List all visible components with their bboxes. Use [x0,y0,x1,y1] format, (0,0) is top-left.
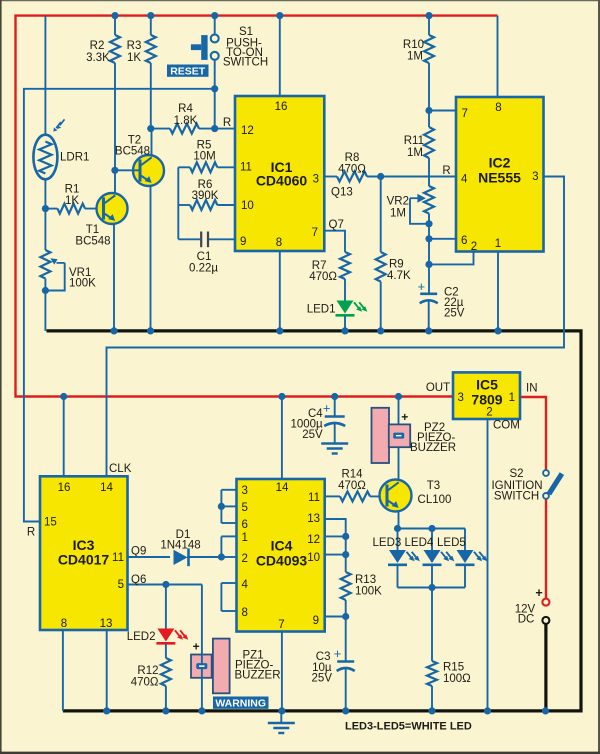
svg-text:+: + [193,640,200,654]
svg-text:12: 12 [307,534,320,546]
node junction S1/reset rail [211,85,218,92]
svg-text:1M: 1M [390,208,406,220]
svg-text:R13: R13 [355,574,376,586]
wire IC4 pins4/8 bracket [220,583,222,611]
svg-text:4.7K: 4.7K [387,270,411,282]
wire IC2 pin8 riser [497,16,499,97]
resistor R11 [428,111,430,128]
svg-text:WARNING: WARNING [215,698,266,710]
svg-text:CL100: CL100 [418,494,452,506]
svg-text:470Ω: 470Ω [309,271,337,283]
svg-text:11: 11 [112,552,124,564]
svg-text:LED3-LED5=WHITE LED: LED3-LED5=WHITE LED [345,721,472,733]
svg-text:R2: R2 [90,40,105,52]
svg-text:10: 10 [307,552,320,564]
wire LDR to R1/VR1 node [44,179,46,208]
wire IC2 pin1 to ground [497,252,499,331]
capacitor C4 [331,393,338,400]
node junction R8/R9/IC2 pin4 [377,173,384,180]
svg-text:13: 13 [100,618,113,630]
wire osc bracket [177,167,179,239]
wire middle ground bus [47,331,582,711]
svg-text:12: 12 [241,125,254,137]
resistor R8 [324,176,337,178]
resistor R7 [324,231,345,252]
node junction Q6/LED2 [162,581,169,588]
svg-text:470Ω: 470Ω [338,480,366,492]
wire +12V top rail (red) [16,16,498,397]
node junction IC3 pin16 riser on red [60,393,67,400]
resistor R12 [165,644,167,658]
svg-text:Q13: Q13 [331,187,353,199]
svg-text:25V: 25V [312,673,333,685]
svg-text:1: 1 [509,392,515,404]
svg-text:R4: R4 [178,103,193,115]
svg-text:LED1: LED1 [307,304,336,316]
svg-text:IC4: IC4 [271,538,293,554]
svg-text:+: + [418,279,426,294]
svg-text:R: R [223,117,231,129]
svg-text:14: 14 [276,482,289,494]
label WARNING [213,697,269,709]
wire IC4 pins1/2 bracket [220,536,222,557]
svg-text:R14: R14 [341,469,363,481]
capacitor C1 [178,238,200,240]
svg-text:8: 8 [61,618,67,630]
switch S2 ignition [543,470,549,476]
svg-text:CD4017: CD4017 [58,552,110,568]
svg-text:13: 13 [307,513,320,525]
wire T3 emitter to LED bus [398,511,400,528]
wire IC4 pins3/5/6 bracket [220,490,222,523]
resistor R4 [147,125,154,132]
svg-text:470Ω: 470Ω [131,677,159,689]
svg-text:R12: R12 [137,665,158,677]
svg-text:3.3K: 3.3K [86,52,110,64]
svg-text:2: 2 [242,553,248,565]
svg-text:R3: R3 [127,40,142,52]
svg-text:BC548: BC548 [75,236,110,248]
resistor R1 [58,204,86,214]
svg-text:7809: 7809 [471,392,502,408]
svg-text:BC548: BC548 [115,145,150,157]
svg-text:LED5: LED5 [437,537,466,549]
svg-text:R1: R1 [65,184,80,196]
switch S1 push-to-on [211,12,218,19]
svg-text:VR2: VR2 [387,196,409,208]
svg-text:100K: 100K [355,586,382,598]
svg-text:IC3: IC3 [73,537,95,553]
wire IC3 pin16 riser [63,397,65,476]
svg-text:15: 15 [44,517,57,529]
label RESET [167,65,209,77]
svg-text:2: 2 [471,241,477,253]
svg-text:7: 7 [278,619,284,631]
wire IC2 pin3 to IC3 CLK [107,177,565,476]
resistor R14 [325,495,340,497]
node junction R10/R11/IC2 pin7 [425,107,432,114]
svg-text:3: 3 [532,171,538,183]
wire IC1 pin16 riser [276,12,283,19]
wire IC4 pin9 stub [325,616,346,618]
svg-text:11: 11 [308,492,320,504]
svg-text:6: 6 [461,235,467,247]
wire LED cathode bus [398,587,466,589]
svg-text:390K: 390K [192,190,219,202]
svg-text:6: 6 [242,519,248,531]
op IC4 CD4093 box [237,479,325,632]
wire IC2 pin2 elbow [429,252,474,265]
wire battery minus drop (black) [544,624,547,711]
svg-text:+: + [401,410,408,424]
ground symbol below C4 [321,442,348,444]
terminal battery minus [542,617,549,624]
svg-text:1K: 1K [65,195,79,207]
wire IC4 pin7 to ground [281,632,283,711]
svg-text:1.8K: 1.8K [174,115,198,127]
wire IC4 pin14 riser [278,393,285,400]
svg-text:5: 5 [242,502,248,514]
capacitor C2 [420,292,437,295]
svg-text:Q7: Q7 [329,219,344,231]
LED LED5 [457,550,474,563]
wire IC2 pin6 stub [425,235,432,242]
LED LED3 [389,550,406,563]
svg-text:Q6: Q6 [131,574,146,586]
svg-text:R10: R10 [403,39,424,51]
svg-text:RESET: RESET [170,66,206,78]
svg-text:DC: DC [518,614,535,626]
op IC3 CD4017 box [40,476,128,630]
svg-text:1: 1 [242,532,248,544]
svg-text:BUZZER: BUZZER [235,670,281,682]
svg-text:IC2: IC2 [489,155,511,171]
op IC5 7809 box [453,372,520,419]
LED LED2 (red) [165,585,167,629]
svg-text:LED2: LED2 [127,631,156,643]
svg-text:1N4148: 1N4148 [160,540,200,552]
resistor R15 [431,588,433,662]
svg-text:+: + [334,646,342,661]
svg-text:CD4060: CD4060 [256,173,308,189]
svg-text:16: 16 [58,482,71,494]
svg-text:R: R [27,527,35,539]
svg-text:R: R [442,165,450,177]
LED LED1 (green) [337,301,354,314]
node junction battery minus on bus [542,707,549,714]
svg-text:3: 3 [313,173,319,185]
wire +12V rail IC5-IN to S2 (red) [520,397,546,470]
svg-text:470Ω: 470Ω [338,164,366,176]
resistor R9 [380,177,382,253]
svg-text:R11: R11 [404,135,424,147]
svg-text:2: 2 [486,407,492,419]
wire IC1 pin8 to ground [279,251,281,331]
svg-text:4: 4 [242,579,249,591]
svg-text:S1: S1 [239,26,253,38]
svg-text:1M: 1M [407,147,423,159]
resistor R10 [425,12,432,19]
op IC1 CD4060 box [235,96,324,251]
ground symbol below PZ1 [280,711,282,723]
svg-text:+: + [323,401,331,416]
svg-text:9: 9 [240,236,246,248]
svg-text:CLK: CLK [109,463,132,475]
wire reset rail left [24,89,215,522]
svg-text:T3: T3 [427,480,440,492]
svg-text:7: 7 [462,108,468,120]
wire IC4 pin12 stub [325,535,346,537]
svg-text:OUT: OUT [426,382,450,394]
wire IC5 COM to ground [487,419,489,711]
svg-text:1: 1 [495,238,501,250]
svg-text:9: 9 [313,615,319,627]
svg-text:SWITCH: SWITCH [494,491,539,503]
svg-text:8: 8 [276,237,282,249]
svg-text:NE555: NE555 [478,170,521,186]
svg-text:T1: T1 [86,224,99,236]
svg-text:11: 11 [240,162,252,174]
svg-text:COM: COM [493,420,520,432]
svg-text:100Ω: 100Ω [443,673,471,685]
svg-text:7: 7 [312,227,318,239]
diode D1 1N4148 [128,556,171,558]
svg-text:LED3: LED3 [373,537,402,549]
svg-text:1M: 1M [407,51,423,63]
buzzer PZ1 piezo [213,639,230,694]
resistor R13 [345,536,347,572]
svg-text:10M: 10M [193,151,215,163]
svg-text:BUZZER: BUZZER [410,442,456,454]
node junction LDR/R1/VR1 [42,205,49,212]
svg-text:C1: C1 [197,251,212,263]
capacitor C3 [345,617,347,662]
svg-text:14: 14 [100,482,113,494]
svg-text:16: 16 [275,101,288,113]
transistor T3 CL100 [380,480,412,512]
svg-text:100K: 100K [69,278,96,290]
svg-text:R15: R15 [443,662,464,674]
resistor R3 [147,12,154,19]
svg-text:4: 4 [461,174,468,186]
wire Q6 net [128,584,202,586]
resistor R6 [178,204,190,206]
svg-text:+: + [535,586,542,600]
svg-text:R8: R8 [345,152,360,164]
LDR LDR1 [33,135,57,180]
wire LED anode bus [398,528,466,530]
svg-text:LED4: LED4 [405,537,434,549]
svg-text:0.22µ: 0.22µ [189,263,218,275]
svg-text:IC5: IC5 [476,377,498,393]
svg-text:Q9: Q9 [131,546,146,558]
svg-text:S2: S2 [509,468,523,480]
svg-text:8: 8 [495,102,501,114]
wire LDR riser from +12V [44,16,46,135]
buzzer PZ2 piezo [395,393,402,400]
wire IC4 pin13 elbow [325,519,346,536]
svg-text:25V: 25V [302,429,323,441]
potentiometer VR1 [44,209,46,250]
wire S2 to battery plus (red) [545,499,547,599]
svg-text:R9: R9 [389,259,404,271]
op IC2 NE555 box [456,97,544,252]
wire IC4 pin10 stub [325,554,346,556]
svg-text:1K: 1K [127,52,141,64]
svg-text:3: 3 [242,485,248,497]
svg-text:10: 10 [241,200,254,212]
wire IC3 pin13 to ground [106,630,108,711]
svg-text:3: 3 [458,392,464,404]
svg-text:CD4093: CD4093 [256,553,308,569]
svg-text:IN: IN [526,383,538,395]
wire IC3 pin8 to ground [62,630,64,711]
LED LED4 [424,550,441,563]
potentiometer VR2 [424,186,434,214]
resistor R2 [111,12,118,19]
svg-text:5: 5 [118,579,124,591]
svg-text:25V: 25V [444,308,465,320]
transistor T2 BC548 [133,155,164,186]
transistor T1 BC548 [97,193,128,224]
svg-text:8: 8 [242,607,248,619]
node junction R2/T2 base/T1 collector [111,167,118,174]
svg-text:LDR1: LDR1 [60,152,89,164]
svg-text:SWITCH: SWITCH [223,57,268,69]
resistor R5 [178,166,190,168]
